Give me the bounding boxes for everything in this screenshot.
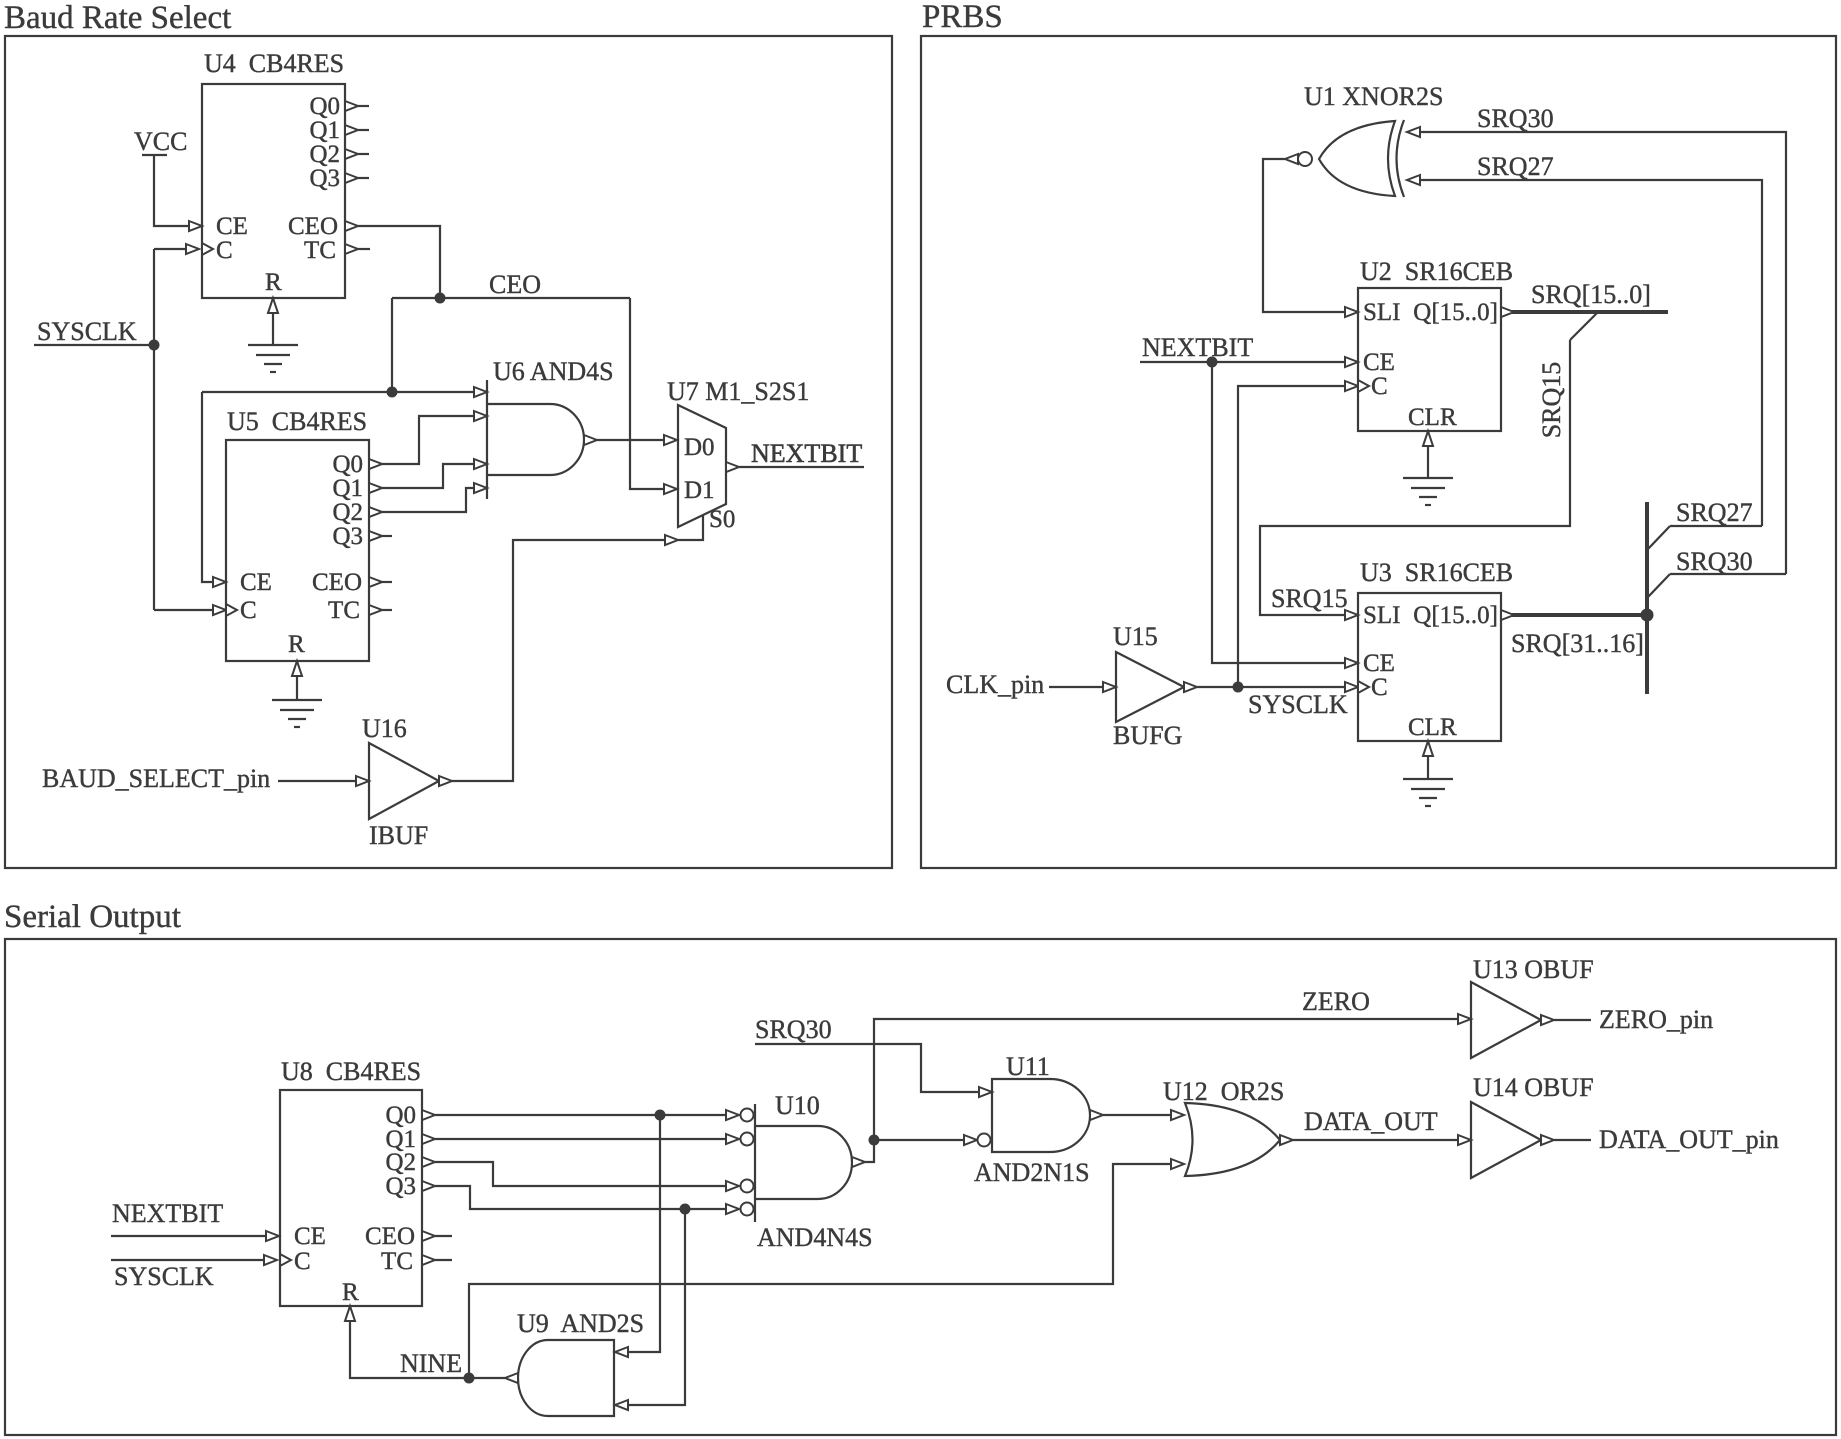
svg-text:U6 AND4S: U6 AND4S xyxy=(493,357,614,386)
wire SYSCLK to U2 C xyxy=(1238,380,1369,687)
wire U4 CEO to junction xyxy=(345,221,440,298)
svg-text:Q3: Q3 xyxy=(385,1173,416,1200)
wire U1 output to U2 SLI xyxy=(1263,159,1358,317)
svg-text:C: C xyxy=(216,237,233,264)
U3 pin CLR arrow xyxy=(1423,741,1433,756)
junction ZERO tap for U11 xyxy=(869,1135,880,1146)
svg-text:U11: U11 xyxy=(1006,1052,1050,1081)
wire Q0 to U9 input 1 xyxy=(615,1115,660,1357)
svg-text:SRQ[15..0]: SRQ[15..0] xyxy=(1531,280,1651,309)
svg-text:NEXTBIT: NEXTBIT xyxy=(112,1199,223,1228)
wire CEO to U6 input 1 xyxy=(202,387,487,397)
svg-text:U16: U16 xyxy=(362,714,407,743)
xnor gate U1 XNOR2S xyxy=(1285,82,1443,197)
svg-text:U12 OR2S: U12 OR2S xyxy=(1163,1077,1284,1106)
svg-text:DATA_OUT_pin: DATA_OUT_pin xyxy=(1599,1125,1779,1154)
svg-text:Q[15..0]: Q[15..0] xyxy=(1413,602,1498,629)
svg-text:CE: CE xyxy=(216,213,248,240)
net DATA_OUT wire xyxy=(1293,1135,1471,1145)
wire SRQ30 to U1 input 1 xyxy=(1407,127,1786,574)
svg-text:CLK_pin: CLK_pin xyxy=(946,670,1044,699)
svg-text:Q0: Q0 xyxy=(309,93,340,120)
wire U6 output to U7 D0 xyxy=(597,435,677,445)
bus rip SRQ27 xyxy=(1648,526,1670,549)
svg-text:C: C xyxy=(1371,373,1388,400)
svg-text:SRQ30: SRQ30 xyxy=(1477,104,1554,133)
junction Q0 tap for U9 xyxy=(655,1110,666,1121)
section frame: Baud Rate Select xyxy=(5,36,892,868)
wire U5 Q2 to U6 input 4 xyxy=(369,483,487,517)
wire U5 Q1 to U6 input 3 xyxy=(369,459,487,493)
wire SYSCLK to U5 C xyxy=(154,609,213,611)
svg-text:C: C xyxy=(294,1248,311,1275)
svg-text:AND2N1S: AND2N1S xyxy=(974,1158,1090,1187)
mux U7 M1_S2S1 xyxy=(667,377,809,533)
svg-text:CE: CE xyxy=(240,569,272,596)
svg-text:Q1: Q1 xyxy=(309,117,340,144)
junction CEO at U6 rail xyxy=(387,387,398,398)
wire BAUD_SELECT_pin to U16 xyxy=(278,776,369,786)
svg-text:AND4N4S: AND4N4S xyxy=(757,1223,873,1252)
svg-text:Q2: Q2 xyxy=(332,499,363,526)
svg-text:SRQ[31..16]: SRQ[31..16] xyxy=(1511,629,1644,658)
svg-text:SLI: SLI xyxy=(1363,299,1401,326)
svg-text:PRBS: PRBS xyxy=(922,0,1003,35)
bus U3 Q[15..0] to SRQ[31..16] xyxy=(1501,610,1647,620)
buffer U16 IBUF xyxy=(362,714,452,850)
svg-text:U15: U15 xyxy=(1113,622,1158,651)
svg-text:NINE: NINE xyxy=(400,1349,462,1378)
wire SRQ15 to U3 SLI xyxy=(1260,340,1570,620)
junction SYSCLK at U15 xyxy=(1233,682,1244,693)
counter U5 CB4RES xyxy=(226,407,369,661)
svg-text:Q2: Q2 xyxy=(309,141,340,168)
svg-text:TC: TC xyxy=(328,597,360,624)
U4 pin R arrow xyxy=(268,298,278,313)
wire U16 output to U7 S0 xyxy=(452,535,678,781)
svg-text:U4 CB4RES: U4 CB4RES xyxy=(204,49,344,78)
wire U8 Q1 to U10 input 2 xyxy=(422,1134,739,1144)
wire VCC to U4 CE xyxy=(154,155,189,226)
net ZERO from U10 xyxy=(865,1019,1458,1162)
U4 pin TC stub xyxy=(345,244,370,254)
wire U5 Q0 to U6 input 2 xyxy=(369,411,487,469)
svg-text:R: R xyxy=(342,1279,359,1306)
shift register U3 SR16CEB xyxy=(1358,558,1513,741)
svg-text:CEO: CEO xyxy=(489,270,541,299)
and gate U9 AND2S xyxy=(505,1309,644,1416)
svg-text:CE: CE xyxy=(294,1223,326,1250)
wire SYSCLK stub xyxy=(34,344,154,346)
svg-text:DATA_OUT: DATA_OUT xyxy=(1304,1107,1438,1136)
buffer U14 OBUF xyxy=(1471,1073,1594,1178)
nand gate U11 AND2N1S xyxy=(974,1052,1103,1187)
svg-text:Serial Output: Serial Output xyxy=(4,899,181,935)
wire ZERO into U13 xyxy=(1458,1014,1471,1024)
junction SYSCLK xyxy=(149,340,160,351)
U8 pin TC stub xyxy=(422,1255,452,1265)
nand gate U10 AND4N4S xyxy=(741,1091,873,1252)
svg-text:SRQ15: SRQ15 xyxy=(1271,584,1348,613)
svg-text:TC: TC xyxy=(381,1248,413,1275)
svg-text:U8 CB4RES: U8 CB4RES xyxy=(281,1057,421,1086)
svg-text:CEO: CEO xyxy=(312,569,362,596)
U8 pin CEO stub xyxy=(422,1231,452,1241)
bus rip SRQ30 xyxy=(1648,574,1670,597)
shift register U2 SR16CEB xyxy=(1358,257,1513,431)
U5 pin C arrow and clock chevron xyxy=(213,604,237,616)
svg-text:Baud Rate Select: Baud Rate Select xyxy=(4,0,231,36)
wire SYSCLK to U4 C xyxy=(154,248,186,250)
wire ZERO to U11 input 2 xyxy=(874,1135,977,1145)
wire U8 Q3 to U10 input 4 xyxy=(422,1181,739,1214)
bus rip SRQ15 xyxy=(1570,313,1597,340)
ground under U4 xyxy=(248,313,298,372)
ground under U5 xyxy=(272,676,322,727)
wire NEXTBIT to U3 CE xyxy=(1212,362,1358,668)
svg-text:U3 SR16CEB: U3 SR16CEB xyxy=(1360,558,1513,587)
svg-text:ZERO: ZERO xyxy=(1302,987,1370,1016)
wire CEO to U5 CE xyxy=(202,392,226,587)
wire CEO horizontal run xyxy=(392,297,630,299)
svg-text:BAUD_SELECT_pin: BAUD_SELECT_pin xyxy=(42,764,270,793)
and gate U6 AND4S xyxy=(487,357,614,499)
wire CLK_pin to U15 xyxy=(1049,682,1116,692)
wire U8 Q0 to U10 input 1 xyxy=(422,1110,739,1120)
svg-text:IBUF: IBUF xyxy=(369,821,428,850)
svg-text:CEO: CEO xyxy=(365,1223,415,1250)
counter U4 CB4RES xyxy=(202,49,345,298)
U4 pin CE arrow xyxy=(189,221,202,231)
svg-text:CLR: CLR xyxy=(1408,404,1457,431)
svg-text:U13 OBUF: U13 OBUF xyxy=(1473,955,1594,984)
counter U8 CB4RES xyxy=(280,1057,422,1306)
svg-text:S0: S0 xyxy=(709,506,735,533)
svg-text:Q0: Q0 xyxy=(332,451,363,478)
wire NINE from U9 output to U8 R xyxy=(350,1321,505,1378)
svg-text:U9 AND2S: U9 AND2S xyxy=(517,1309,644,1338)
svg-text:Q2: Q2 xyxy=(385,1149,416,1176)
U5 pin CEO stub xyxy=(369,577,392,587)
ground under U3 xyxy=(1403,756,1453,806)
svg-text:NEXTBIT: NEXTBIT xyxy=(1142,333,1253,362)
wire NEXTBIT to U2 CE xyxy=(1140,357,1358,367)
svg-text:SLI: SLI xyxy=(1363,602,1401,629)
wire S0 stub into U7 xyxy=(678,515,703,540)
svg-text:Q1: Q1 xyxy=(332,475,363,502)
buffer U15 BUFG xyxy=(1113,622,1197,750)
junction Q3 tap for U9 xyxy=(680,1204,691,1215)
svg-text:SRQ27: SRQ27 xyxy=(1477,152,1554,181)
svg-text:R: R xyxy=(288,631,305,658)
ground under U2 xyxy=(1403,446,1453,505)
svg-text:SYSCLK: SYSCLK xyxy=(1248,690,1348,719)
svg-text:VCC: VCC xyxy=(134,127,187,156)
U5 pin R arrow xyxy=(292,661,302,676)
svg-text:CEO: CEO xyxy=(288,213,338,240)
U5 pin Q3 stub xyxy=(369,531,392,541)
section frame: Serial Output xyxy=(5,939,1836,1435)
wire U11 output to U12 input 1 xyxy=(1103,1110,1184,1120)
junction CEO xyxy=(435,293,446,304)
svg-text:D1: D1 xyxy=(684,477,715,504)
wire Q3 to U9 input 2 xyxy=(615,1209,685,1410)
wire SRQ30 to U11 input 1 xyxy=(755,1044,992,1097)
or gate U12 OR2S xyxy=(1163,1077,1293,1176)
wire DATA_OUT_pin stub xyxy=(1554,1139,1591,1141)
wire SRQ27 rip run xyxy=(1670,525,1762,527)
bus U2 Q[15..0] xyxy=(1501,307,1668,317)
wire ZERO_pin stub xyxy=(1554,1019,1591,1021)
svg-text:CE: CE xyxy=(1363,650,1395,677)
bus SRQ[31..16] vertical xyxy=(1645,502,1649,694)
svg-text:BUFG: BUFG xyxy=(1113,721,1182,750)
svg-text:U1 XNOR2S: U1 XNOR2S xyxy=(1304,82,1443,111)
wire U8 Q2 to U10 input 3 xyxy=(422,1157,739,1191)
svg-text:ZERO_pin: ZERO_pin xyxy=(1599,1005,1713,1034)
U5 pin TC stub xyxy=(369,605,392,615)
junction NEXTBIT xyxy=(1207,357,1218,368)
svg-text:U14 OBUF: U14 OBUF xyxy=(1473,1073,1594,1102)
wire CEO down to U6 input rail xyxy=(391,298,393,392)
svg-text:NEXTBIT: NEXTBIT xyxy=(751,439,862,468)
svg-text:Q[15..0]: Q[15..0] xyxy=(1413,299,1498,326)
junction NINE xyxy=(464,1373,475,1384)
wire SYSCLK to U8 C xyxy=(111,1254,291,1266)
U4 pin Q0 stub xyxy=(345,101,369,111)
svg-text:U10: U10 xyxy=(775,1091,820,1120)
svg-text:Q3: Q3 xyxy=(332,523,363,550)
junction SRQ[31..16] xyxy=(1641,609,1654,622)
svg-text:Q0: Q0 xyxy=(385,1102,416,1129)
buffer U13 OBUF xyxy=(1471,955,1594,1058)
svg-text:SRQ27: SRQ27 xyxy=(1676,498,1753,527)
svg-text:R: R xyxy=(265,269,282,296)
svg-text:SRQ30: SRQ30 xyxy=(1676,547,1753,576)
svg-text:C: C xyxy=(240,597,257,624)
svg-text:U2 SR16CEB: U2 SR16CEB xyxy=(1360,257,1513,286)
wire NINE to U12 input 2 xyxy=(469,1159,1184,1378)
svg-text:C: C xyxy=(1371,674,1388,701)
svg-text:CE: CE xyxy=(1363,349,1395,376)
svg-text:SYSCLK: SYSCLK xyxy=(37,317,137,346)
svg-text:U7 M1_S2S1: U7 M1_S2S1 xyxy=(667,377,809,406)
U4 pin C arrow and clock chevron xyxy=(186,243,213,255)
svg-text:U5 CB4RES: U5 CB4RES xyxy=(227,407,367,436)
U2 pin CLR arrow xyxy=(1423,431,1433,446)
net NEXTBIT output wire xyxy=(739,466,864,468)
section frame: PRBS xyxy=(921,36,1836,868)
svg-text:D0: D0 xyxy=(684,434,715,461)
wire CEO to U7 D1 xyxy=(630,298,677,494)
svg-text:Q3: Q3 xyxy=(309,165,340,192)
U4 pin Q3 stub xyxy=(345,173,369,183)
svg-text:CLR: CLR xyxy=(1408,714,1457,741)
wire NEXTBIT to U8 CE xyxy=(111,1231,279,1241)
svg-text:SRQ30: SRQ30 xyxy=(755,1015,832,1044)
U8 pin R arrow xyxy=(345,1306,355,1321)
U4 pin Q1 stub xyxy=(345,125,369,135)
wire U15 output to U3 C xyxy=(1197,681,1369,693)
svg-text:SRQ15: SRQ15 xyxy=(1537,362,1566,439)
svg-text:SYSCLK: SYSCLK xyxy=(114,1262,214,1291)
wire SRQ30 rip run xyxy=(1670,573,1786,575)
svg-text:TC: TC xyxy=(304,237,336,264)
wire SYSCLK vertical trunk xyxy=(153,249,155,610)
wire SRQ27 to U1 input 2 xyxy=(1407,175,1762,526)
U4 pin Q2 stub xyxy=(345,149,369,159)
power symbol VCC xyxy=(134,127,187,156)
